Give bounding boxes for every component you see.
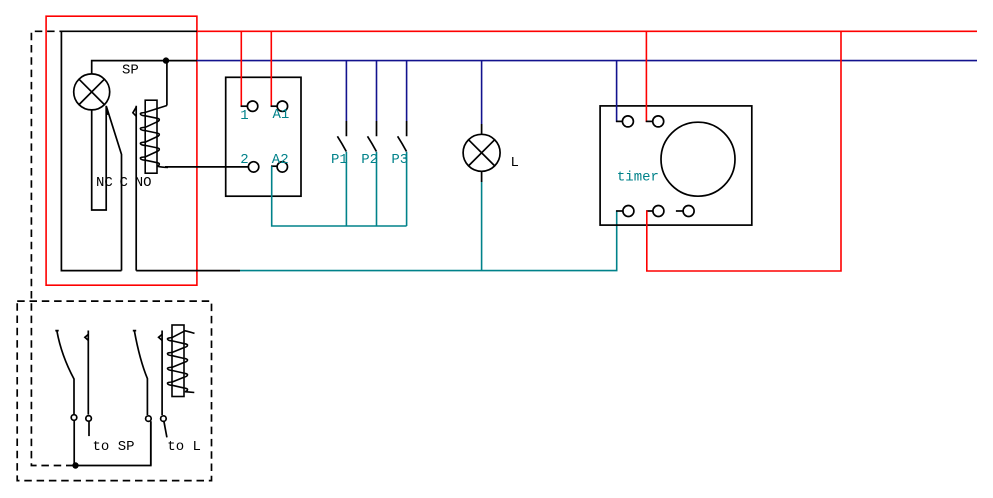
wire coil feed (166, 61, 168, 106)
alt switch B blade (133, 331, 148, 415)
alt contact bar B (159, 331, 163, 416)
svg-text:P2: P2 (361, 152, 378, 168)
alt bar B terminal (161, 416, 167, 422)
wire phase to timer (645, 31, 647, 122)
alt bar A terminal (86, 416, 92, 422)
alt switch B terminal (146, 416, 152, 422)
lamp L feed blue (481, 61, 483, 124)
latching module box (226, 77, 301, 196)
wire neutral to timer (616, 61, 618, 122)
neutral wire N blue (197, 60, 977, 62)
alt bar A stub (88, 421, 90, 436)
timer dial (661, 122, 735, 196)
wire switch B to node (150, 421, 152, 465)
node alt junction (72, 462, 78, 468)
terminal A1 (277, 101, 287, 111)
terminal 1 (247, 101, 257, 111)
timer terminal top2 (653, 116, 664, 127)
lamp SP (74, 74, 110, 110)
timer box (600, 106, 752, 225)
timer terminal bot2 (653, 206, 664, 217)
wire switch A to node (73, 421, 75, 466)
svg-text:to SP: to SP (93, 439, 135, 455)
wire NO to timer black part (136, 270, 240, 272)
contact NO (133, 106, 136, 271)
dashed alternative enclosure (17, 301, 211, 481)
timer terminal bot3 (683, 206, 694, 217)
alt coil (167, 325, 194, 397)
wire timer switched phase return (646, 210, 653, 212)
alt contact bar A (85, 331, 88, 415)
svg-text:C: C (120, 175, 128, 191)
svg-text:1: 1 (240, 108, 248, 124)
wire lamp L to bottom bus teal (481, 182, 483, 271)
relay coil (140, 100, 168, 173)
alt bar B stub (164, 421, 167, 437)
svg-text:L: L (511, 155, 519, 171)
contact C blade (106, 107, 121, 271)
alt switch A blade (55, 331, 74, 415)
svg-text:P1: P1 (331, 152, 348, 168)
unit frame feed wire (61, 31, 197, 270)
phase wire L red (197, 30, 977, 32)
wire alt bottom link (74, 421, 151, 465)
timer terminal bot1 (623, 206, 634, 217)
timer terminal top1 (622, 116, 633, 127)
wire NO to timer teal part (240, 210, 617, 270)
wire phase to terminal A1 (270, 31, 272, 106)
contact NC with lamp lead (92, 106, 107, 210)
pushbutton P1 (337, 61, 346, 226)
svg-text:A1: A1 (273, 107, 290, 123)
wire phase to terminal 1 (240, 31, 242, 106)
red enclosure box (46, 16, 197, 285)
timer terminal bot3 stub (676, 210, 683, 212)
svg-text:timer: timer (617, 170, 659, 186)
svg-text:SP: SP (122, 63, 139, 79)
wire dashed remote link (31, 31, 73, 465)
lamp L top lead (481, 124, 483, 134)
wire A2 to pushbutton bus (271, 165, 277, 167)
svg-text:NC: NC (96, 175, 113, 191)
node neutral junction (163, 57, 169, 63)
alt switch A terminal (71, 415, 77, 421)
svg-text:P3: P3 (391, 152, 408, 168)
svg-text:NO: NO (135, 175, 152, 191)
pushbutton P3 (398, 61, 407, 226)
terminal 2 (248, 162, 258, 172)
wire lamp SP to neutral node (92, 61, 197, 74)
lamp L (463, 134, 500, 171)
lamp L bottom lead (481, 171, 483, 182)
terminal A2 (277, 162, 287, 172)
svg-text:to L: to L (167, 439, 201, 455)
pushbutton P2 (368, 61, 377, 226)
svg-text:2: 2 (240, 152, 248, 168)
wire coil to terminal 2 (165, 166, 248, 168)
